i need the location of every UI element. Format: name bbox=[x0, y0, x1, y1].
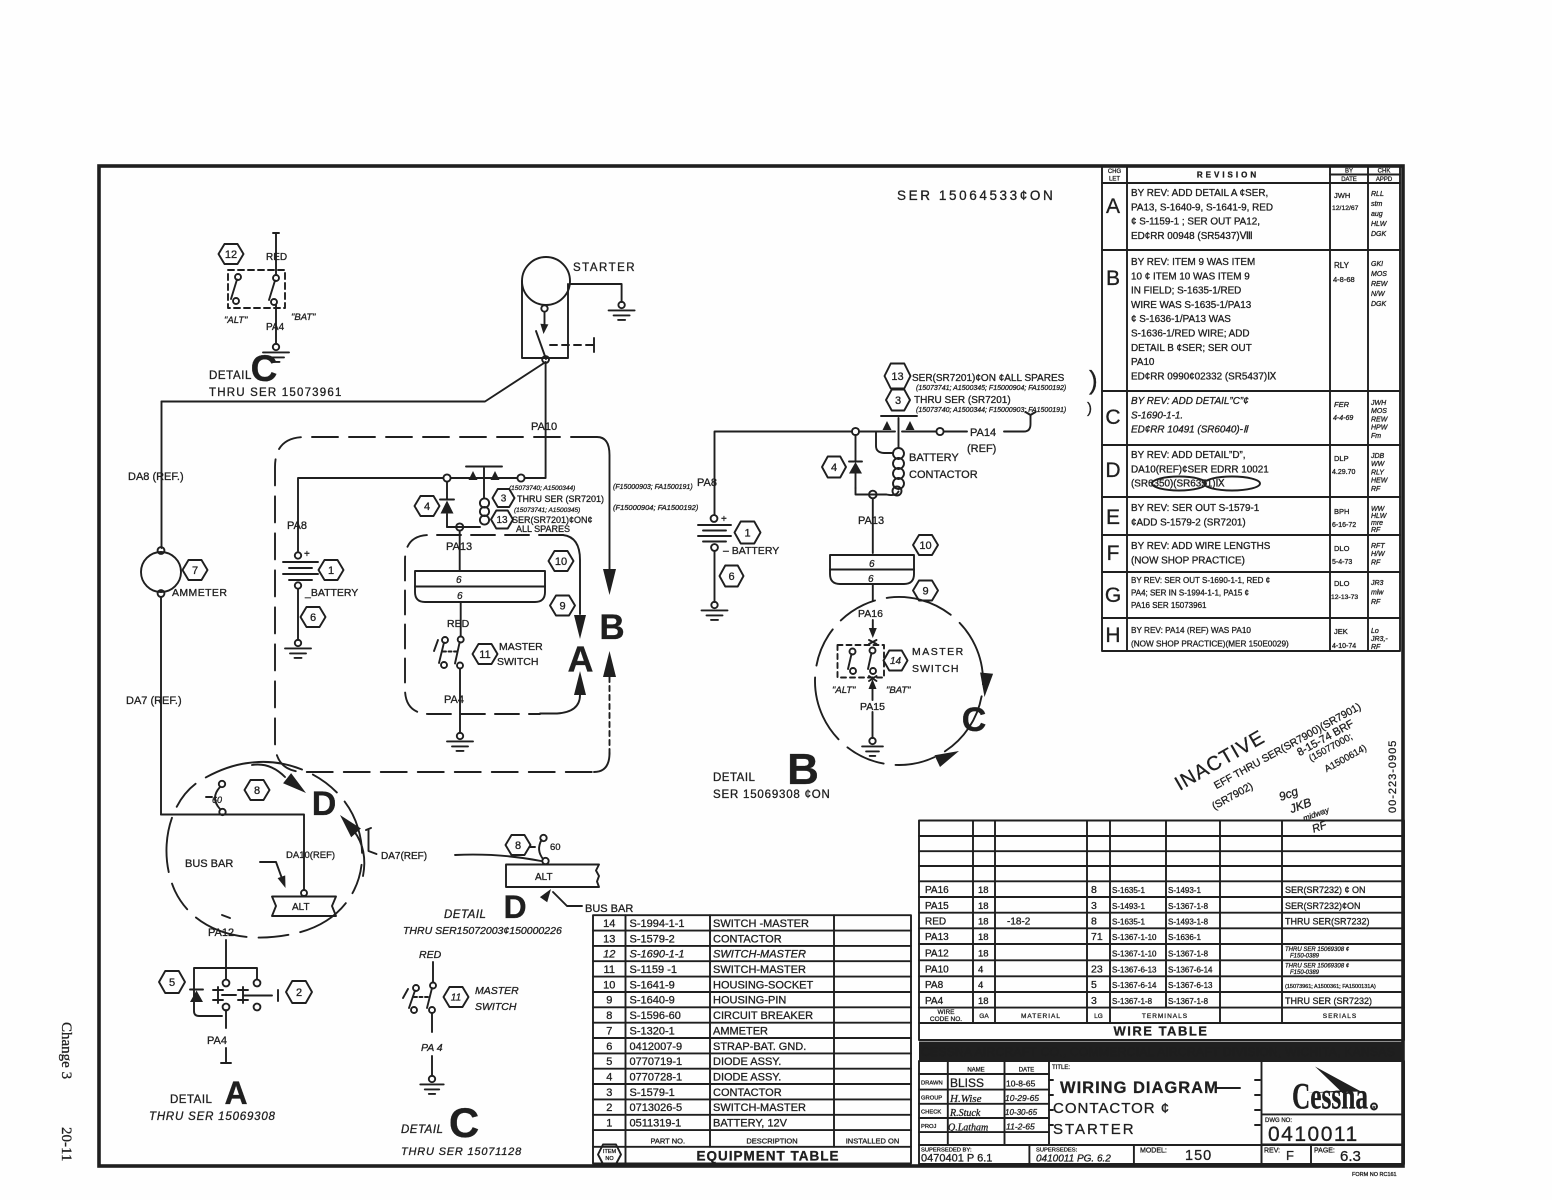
svg-text:2: 2 bbox=[606, 1102, 612, 1114]
svg-text:PA16: PA16 bbox=[858, 608, 883, 620]
wire PA10 from starter down bbox=[525, 363, 546, 478]
item 13 hexagon + note (right contactor) bbox=[885, 364, 1067, 393]
item 6 hexagon (right) bbox=[720, 566, 744, 587]
svg-text:(15073741; A1500345; F15000904: (15073741; A1500345; F15000904; FA150019… bbox=[916, 385, 1066, 392]
svg-text:9: 9 bbox=[559, 600, 565, 612]
ammeter label bbox=[172, 587, 227, 599]
svg-text:aug: aug bbox=[1371, 211, 1383, 218]
svg-text:10-30-65: 10-30-65 bbox=[1005, 1108, 1038, 1117]
svg-text:H/W: H/W bbox=[1371, 551, 1386, 558]
svg-text:RED: RED bbox=[447, 618, 470, 630]
wire contactor coil to PA13 junction bbox=[456, 523, 463, 570]
svg-text:0770728-1: 0770728-1 bbox=[630, 1071, 683, 1083]
svg-text:7: 7 bbox=[192, 565, 198, 577]
svg-text:MODEL:: MODEL: bbox=[1140, 1148, 1167, 1155]
svg-text:DA7 (REF.): DA7 (REF.) bbox=[126, 695, 182, 707]
item 5 hexagon (detail A) bbox=[159, 971, 185, 993]
svg-text:5: 5 bbox=[1091, 979, 1097, 991]
svg-text:¢ S-1636-1/PA13 WAS: ¢ S-1636-1/PA13 WAS bbox=[1131, 314, 1231, 325]
bus bar label (blob) + leader bbox=[185, 858, 286, 888]
detail B caption bbox=[713, 745, 831, 801]
svg-text:– BATTERY: – BATTERY bbox=[723, 545, 779, 557]
master switch label (detail C lower) bbox=[475, 985, 519, 1013]
svg-text:(15073961; A1500361; FA1500131: (15073961; A1500361; FA1500131A) bbox=[1285, 984, 1376, 990]
svg-text:PROJ: PROJ bbox=[921, 1124, 937, 1130]
svg-text:5-4-73: 5-4-73 bbox=[1332, 559, 1352, 566]
svg-text:S-1367-6-13: S-1367-6-13 bbox=[1112, 966, 1157, 975]
svg-text:S-1640-9: S-1640-9 bbox=[630, 995, 675, 1007]
svg-text:RFT: RFT bbox=[1371, 543, 1385, 550]
svg-text:CONTACTOR ¢: CONTACTOR ¢ bbox=[1053, 1100, 1170, 1117]
svg-text:IN FIELD; S-1635-1/RED: IN FIELD; S-1635-1/RED bbox=[1131, 286, 1241, 297]
svg-text:20-11: 20-11 bbox=[58, 1127, 74, 1161]
svg-text:S-1493-1-8: S-1493-1-8 bbox=[1168, 918, 1209, 927]
svg-text:BY: BY bbox=[1345, 169, 1353, 175]
svg-text:WW: WW bbox=[1371, 461, 1386, 468]
svg-text:PART NO.: PART NO. bbox=[650, 1136, 685, 1145]
svg-text:ED¢RR 10491 (SR6040)-Ⅱ: ED¢RR 10491 (SR6040)-Ⅱ bbox=[1131, 425, 1249, 436]
svg-text:CONTACTOR: CONTACTOR bbox=[909, 469, 978, 481]
wire DA8 vertical to ammeter bbox=[161, 402, 163, 549]
detail boundary blob (detail A/D region) bbox=[166, 762, 362, 938]
svg-text:6: 6 bbox=[457, 591, 463, 602]
svg-text:MOS: MOS bbox=[1371, 271, 1387, 278]
svg-text:S-1367-1-8: S-1367-1-8 bbox=[1168, 902, 1209, 911]
svg-text:CHG: CHG bbox=[1108, 169, 1122, 175]
svg-text:DGK: DGK bbox=[1371, 231, 1387, 238]
svg-text:REW: REW bbox=[1371, 281, 1389, 288]
item 9 hexagon (right strip) bbox=[913, 581, 938, 601]
battery ground (right) bbox=[702, 602, 728, 620]
svg-text:NO: NO bbox=[605, 1156, 614, 1162]
wire RED to switch (detail C lower) bbox=[432, 962, 434, 982]
stencil letter B bbox=[599, 608, 624, 647]
detail C (upper) wire from RED to switch bbox=[273, 233, 279, 274]
connector strip (right) 6/6 bbox=[830, 555, 914, 585]
company banner bbox=[919, 1042, 1404, 1062]
border frame bbox=[99, 166, 1403, 1166]
vertical drawing code 00-223-0905 bbox=[1387, 740, 1399, 813]
wire battery to ground (right) bbox=[714, 551, 716, 602]
svg-text:RF: RF bbox=[1371, 559, 1381, 566]
detail boundary inner dashed box (master switch detail) bbox=[405, 535, 563, 714]
svg-text:E: E bbox=[1106, 506, 1120, 529]
diode CR1 (center, item 4) bbox=[415, 482, 455, 527]
svg-text:JEK: JEK bbox=[1334, 627, 1348, 636]
svg-text:DLO: DLO bbox=[1334, 544, 1350, 553]
svg-text:18: 18 bbox=[978, 996, 989, 1007]
svg-text:THRU SER(SR7232): THRU SER(SR7232) bbox=[1285, 917, 1370, 927]
contactor K2 (detail A) bbox=[194, 968, 278, 1016]
svg-text:A: A bbox=[224, 1075, 247, 1111]
svg-text:PA13: PA13 bbox=[858, 515, 884, 527]
svg-text:3: 3 bbox=[501, 494, 507, 505]
svg-text:150: 150 bbox=[1185, 1148, 1212, 1164]
svg-text:RED: RED bbox=[419, 949, 442, 961]
equipment table bbox=[593, 915, 911, 1164]
svg-text:): ) bbox=[1087, 400, 1092, 417]
title block bbox=[919, 1061, 1404, 1165]
svg-text:(15073741; A1500345): (15073741; A1500345) bbox=[514, 507, 580, 514]
detail C (upper) ground bbox=[263, 344, 289, 362]
master switch label (center) bbox=[497, 641, 543, 668]
master switch ground (center) bbox=[447, 733, 473, 751]
svg-text:11: 11 bbox=[479, 649, 490, 661]
svg-text:STARTER: STARTER bbox=[1053, 1121, 1136, 1138]
detail B circle arrow (right, down) bbox=[980, 673, 993, 698]
svg-text:60: 60 bbox=[550, 842, 561, 853]
svg-text:0470401 P 6.1: 0470401 P 6.1 bbox=[921, 1153, 992, 1165]
svg-text:11: 11 bbox=[604, 964, 615, 976]
detail C (upper) wire to ground bbox=[275, 305, 277, 344]
svg-text:0410011: 0410011 bbox=[1268, 1123, 1359, 1146]
svg-text:AMMETER: AMMETER bbox=[172, 587, 227, 599]
svg-text:WIRE: WIRE bbox=[938, 1009, 956, 1016]
svg-text:DIODE ASSY.: DIODE ASSY. bbox=[713, 1056, 781, 1068]
svg-text:8: 8 bbox=[1091, 884, 1097, 896]
svg-text:(15073740; A1500344; F15000903: (15073740; A1500344; F15000903; FA150019… bbox=[916, 407, 1066, 414]
wire bus in blob bbox=[161, 815, 304, 891]
svg-text:S-1579-1: S-1579-1 bbox=[630, 1087, 675, 1099]
detail C (upper) RED wire label bbox=[266, 252, 287, 263]
diode CR3 (right, item 4) bbox=[822, 435, 862, 488]
svg-text:RLY: RLY bbox=[1334, 261, 1350, 270]
svg-text:H.Wise: H.Wise bbox=[949, 1093, 982, 1105]
battery contactor K3 (right) bbox=[852, 416, 917, 496]
item 3 hexagon + serial note (center) bbox=[493, 485, 605, 507]
detail blob curved arrow (from DA7 side) bbox=[340, 815, 364, 876]
svg-text:6: 6 bbox=[728, 571, 734, 583]
big parens on serial notes bbox=[1087, 365, 1098, 417]
svg-text:DETAIL: DETAIL bbox=[401, 1124, 443, 1136]
svg-text:BY REV: ADD DETAIL”C”¢: BY REV: ADD DETAIL”C”¢ bbox=[1131, 396, 1249, 407]
node PA4 label (center) bbox=[444, 694, 464, 706]
svg-text:8: 8 bbox=[515, 840, 521, 852]
svg-text:10 ¢ ITEM 10 WAS ITEM 9: 10 ¢ ITEM 10 WAS ITEM 9 bbox=[1131, 271, 1250, 282]
svg-text:BY REV: PA14 (REF) WAS PA10: BY REV: PA14 (REF) WAS PA10 bbox=[1131, 626, 1251, 635]
svg-text:C: C bbox=[962, 701, 987, 739]
svg-text:THRU SER 15069308 ¢: THRU SER 15069308 ¢ bbox=[1285, 947, 1350, 953]
svg-text:18: 18 bbox=[978, 932, 989, 943]
svg-text:mlw: mlw bbox=[1371, 590, 1384, 597]
detail C (upper) ALT / PA4 / BAT labels bbox=[224, 312, 316, 333]
svg-text:A: A bbox=[568, 639, 594, 680]
node PA13 label (right) bbox=[858, 515, 884, 527]
svg-text:DA10(REF): DA10(REF) bbox=[286, 850, 335, 861]
svg-text:S-1320-1: S-1320-1 bbox=[630, 1025, 675, 1037]
svg-text:DETAIL: DETAIL bbox=[713, 772, 756, 784]
svg-text:B: B bbox=[787, 745, 819, 794]
bus bar label (detail D) + leader arrow bbox=[540, 889, 633, 915]
svg-text:mre: mre bbox=[1371, 520, 1383, 527]
svg-text:1: 1 bbox=[744, 527, 750, 539]
svg-text:PA13: PA13 bbox=[446, 541, 472, 553]
svg-text:S-1367-1-8: S-1367-1-8 bbox=[1112, 997, 1153, 1006]
svg-text:71: 71 bbox=[1091, 931, 1103, 943]
svg-text:GA: GA bbox=[979, 1013, 989, 1020]
starter ground bbox=[609, 302, 635, 320]
svg-text:FORM NO RC161: FORM NO RC161 bbox=[1352, 1172, 1397, 1178]
svg-text:THRU SER 15069308 ¢: THRU SER 15069308 ¢ bbox=[1285, 963, 1350, 969]
detail C (upper) master switch poles bbox=[231, 274, 279, 305]
svg-text:HOUSING-PIN: HOUSING-PIN bbox=[713, 995, 786, 1007]
starter motor bbox=[522, 257, 594, 363]
svg-text:AMMETER: AMMETER bbox=[713, 1025, 768, 1037]
svg-text:JWH: JWH bbox=[1334, 191, 1350, 200]
svg-text:WIRING DIAGRAM: WIRING DIAGRAM bbox=[1060, 1079, 1219, 1097]
svg-text:BY REV: ITEM 9 WAS ITEM: BY REV: ITEM 9 WAS ITEM bbox=[1131, 257, 1255, 268]
svg-text:ALT: ALT bbox=[292, 902, 310, 913]
svg-text:BY REV: SER OUT S-1690-1-1, RE: BY REV: SER OUT S-1690-1-1, RED ¢ bbox=[1131, 576, 1270, 585]
battery B2 (right) bbox=[698, 514, 731, 551]
starter label bbox=[573, 262, 636, 274]
svg-text:JR3,-: JR3,- bbox=[1370, 636, 1388, 643]
svg-text:1: 1 bbox=[328, 565, 334, 577]
svg-text:): ) bbox=[1089, 365, 1098, 395]
svg-text:DA7(REF): DA7(REF) bbox=[381, 851, 427, 862]
junction PA13 (right) bbox=[869, 491, 877, 553]
svg-text:12: 12 bbox=[603, 949, 615, 961]
svg-text:RF: RF bbox=[1371, 599, 1381, 606]
svg-text:CHK: CHK bbox=[1378, 169, 1391, 175]
svg-text:S-1690-1-1.: S-1690-1-1. bbox=[1131, 410, 1183, 421]
node RED label (detail C lower) bbox=[419, 949, 442, 961]
svg-text:PA10: PA10 bbox=[925, 965, 949, 976]
svg-text:12: 12 bbox=[225, 249, 237, 261]
svg-text:BY REV: ADD DETAIL”D”,: BY REV: ADD DETAIL”D”, bbox=[1131, 450, 1246, 461]
revision row G bbox=[1105, 576, 1385, 610]
svg-text:HPW: HPW bbox=[1371, 425, 1389, 432]
wire table bbox=[919, 821, 1404, 1041]
node PA14 (REF) label bbox=[967, 427, 996, 455]
svg-text:4-10-74: 4-10-74 bbox=[1332, 643, 1356, 650]
svg-text:REV:: REV: bbox=[1264, 1148, 1280, 1155]
svg-text:6-16-72: 6-16-72 bbox=[1332, 522, 1356, 529]
svg-text:NAME: NAME bbox=[967, 1068, 984, 1074]
svg-text:S-1367-6-14: S-1367-6-14 bbox=[1168, 966, 1213, 975]
battery label (right) bbox=[723, 545, 779, 557]
svg-text:CESSNA AIRCRAFT CO., COMMERCIA: CESSNA AIRCRAFT CO., COMMERCIAL AIRCRAFT… bbox=[921, 1045, 1395, 1059]
master switch item 11 hexagon (center) bbox=[473, 644, 498, 664]
svg-text:Cessna: Cessna bbox=[1292, 1077, 1368, 1118]
detail D caption bbox=[403, 889, 562, 937]
svg-text:PA4; SER IN S-1994-1-1, PA15 ¢: PA4; SER IN S-1994-1-1, PA15 ¢ bbox=[1131, 589, 1249, 598]
note bracket to PA14 bbox=[1004, 412, 1036, 432]
svg-text:5: 5 bbox=[606, 1056, 612, 1068]
svg-text:RF: RF bbox=[1371, 527, 1381, 534]
svg-text:D: D bbox=[1105, 459, 1120, 482]
svg-text:STARTER: STARTER bbox=[573, 262, 636, 274]
svg-text:DATE: DATE bbox=[1341, 177, 1357, 183]
svg-text:F: F bbox=[1286, 1148, 1294, 1163]
svg-text:S-1994-1-1: S-1994-1-1 bbox=[630, 918, 685, 930]
svg-text:HLW: HLW bbox=[1371, 513, 1388, 520]
svg-text:23: 23 bbox=[1091, 964, 1103, 976]
svg-text:SERIALS: SERIALS bbox=[1323, 1013, 1357, 1020]
revision row H bbox=[1105, 624, 1388, 651]
svg-text:Change 3: Change 3 bbox=[58, 1022, 74, 1079]
detail boundary outer arrow B (bottom) bbox=[594, 651, 616, 772]
svg-text:INSTALLED ON: INSTALLED ON bbox=[846, 1136, 900, 1145]
node PA12 label bbox=[208, 915, 234, 939]
wire battery to ground (center) bbox=[297, 589, 299, 640]
svg-text:0511319-1: 0511319-1 bbox=[630, 1118, 682, 1130]
detail boundary outer dashed box (details A/B region) bbox=[275, 437, 597, 772]
detail boundary circle (detail B) bbox=[787, 569, 1010, 792]
svg-text:PA10: PA10 bbox=[531, 421, 557, 433]
svg-text:10: 10 bbox=[919, 540, 931, 552]
svg-text:S-1635-1: S-1635-1 bbox=[1112, 886, 1145, 895]
svg-text:4-8-68: 4-8-68 bbox=[1333, 275, 1355, 284]
item 9 hexagon (center) bbox=[550, 596, 575, 616]
svg-text:BPH: BPH bbox=[1334, 507, 1349, 516]
ALT bus bar (detail D) bbox=[506, 865, 599, 888]
svg-text:-18-2: -18-2 bbox=[1007, 917, 1031, 928]
svg-text:CONTACTOR: CONTACTOR bbox=[713, 1087, 782, 1099]
svg-text:¢ADD S-1579-2 (SR7201): ¢ADD S-1579-2 (SR7201) bbox=[1131, 517, 1246, 528]
ALT / BAT labels (detail B) bbox=[832, 685, 911, 696]
svg-text:JWH: JWH bbox=[1370, 400, 1387, 407]
svg-text:REVISION: REVISION bbox=[1197, 171, 1259, 180]
svg-text:ALL SPARES: ALL SPARES bbox=[516, 524, 570, 534]
ground (detail C lower) bbox=[420, 1076, 443, 1094]
svg-text:4: 4 bbox=[978, 965, 983, 976]
wire switch to ground (detail C lower) bbox=[431, 1013, 433, 1076]
svg-text:B: B bbox=[1106, 267, 1120, 290]
wire master switch to ground (center) bbox=[459, 669, 461, 734]
svg-text:THRU SER (SR7201): THRU SER (SR7201) bbox=[517, 494, 604, 504]
svg-text:10-29-65: 10-29-65 bbox=[1005, 1093, 1039, 1103]
INACTIVE stamp bbox=[1171, 701, 1369, 813]
wire PA8 (right battery feed) bbox=[715, 432, 853, 516]
svg-text:4: 4 bbox=[424, 501, 430, 513]
svg-text:SWITCH-MASTER: SWITCH-MASTER bbox=[713, 964, 806, 976]
svg-text:PA15: PA15 bbox=[925, 901, 949, 912]
wire PA12 to contactor bbox=[225, 940, 227, 979]
svg-text:_BATTERY: _BATTERY bbox=[304, 587, 358, 599]
svg-text:(F15000904; FA1500192): (F15000904; FA1500192) bbox=[613, 503, 699, 512]
svg-text:MASTER: MASTER bbox=[912, 646, 965, 658]
svg-text:HLW: HLW bbox=[1371, 221, 1388, 228]
detail boundary inner arrow A (bottom) bbox=[540, 671, 586, 714]
svg-text:CHECK: CHECK bbox=[921, 1110, 941, 1116]
svg-text:PA8: PA8 bbox=[925, 980, 944, 991]
svg-text:THRU SER (SR7201): THRU SER (SR7201) bbox=[914, 395, 1011, 406]
item 8 hexagon (blob) bbox=[245, 780, 270, 800]
battery label (center) bbox=[304, 587, 358, 599]
svg-text:4: 4 bbox=[606, 1071, 612, 1083]
svg-text:DESCRIPTION: DESCRIPTION bbox=[746, 1136, 797, 1145]
node PA 4 label (detail C lower) bbox=[421, 1042, 443, 1054]
svg-text:2: 2 bbox=[296, 987, 302, 999]
svg-text:S-1690-1-1: S-1690-1-1 bbox=[630, 949, 685, 961]
svg-text:DETAIL: DETAIL bbox=[209, 370, 252, 382]
svg-text:¢ S-1159-1 ; SER OUT PA12,: ¢ S-1159-1 ; SER OUT PA12, bbox=[1131, 217, 1260, 228]
svg-text:DRAWN: DRAWN bbox=[921, 1081, 943, 1087]
svg-text:"ALT": "ALT" bbox=[224, 315, 248, 326]
svg-text:(NOW SHOP PRACTICE): (NOW SHOP PRACTICE) bbox=[1131, 555, 1245, 566]
svg-text:PA8: PA8 bbox=[697, 477, 717, 489]
svg-text:S-1635-1: S-1635-1 bbox=[1112, 918, 1145, 927]
wire PA14 (REF) bbox=[902, 428, 967, 435]
item 13 hexagon + serial note (center) bbox=[491, 507, 593, 534]
svg-text:3: 3 bbox=[1091, 995, 1097, 1007]
svg-text:00-223-0905: 00-223-0905 bbox=[1387, 740, 1399, 813]
svg-text:BY REV: ADD WIRE LENGTHS: BY REV: ADD WIRE LENGTHS bbox=[1131, 541, 1271, 552]
item 2 hexagon (detail A) bbox=[286, 981, 312, 1003]
page number vertical text bbox=[58, 1022, 74, 1161]
wire ammeter to detail A bbox=[160, 597, 162, 815]
svg-text:PA16: PA16 bbox=[925, 885, 949, 896]
svg-text:SER(SR7232) ¢ ON: SER(SR7232) ¢ ON bbox=[1285, 885, 1366, 895]
svg-text:+: + bbox=[721, 514, 727, 525]
note SER 15064533 & ON bbox=[897, 188, 1055, 203]
svg-text:SER 15069308 ¢ON: SER 15069308 ¢ON bbox=[713, 789, 831, 801]
svg-text:APPD: APPD bbox=[1376, 177, 1393, 183]
svg-text:HOUSING-SOCKET: HOUSING-SOCKET bbox=[713, 979, 814, 991]
svg-text:N/W: N/W bbox=[1371, 291, 1386, 298]
battery contactor K1 (center) bbox=[443, 467, 524, 528]
revision row F bbox=[1107, 541, 1386, 566]
svg-text:TITLE:: TITLE: bbox=[1052, 1065, 1070, 1071]
svg-text:7: 7 bbox=[606, 1025, 612, 1037]
svg-text:(NOW SHOP PRACTICE)(MER 150E00: (NOW SHOP PRACTICE)(MER 150E0029) bbox=[1131, 640, 1289, 649]
svg-text:10: 10 bbox=[603, 979, 615, 991]
svg-text:0713026-5: 0713026-5 bbox=[630, 1102, 683, 1114]
svg-text:11-2-65: 11-2-65 bbox=[1006, 1122, 1035, 1132]
breaker 60 label (detail D) bbox=[550, 842, 561, 853]
svg-text:THRU SER (SR7232): THRU SER (SR7232) bbox=[1285, 996, 1372, 1006]
svg-text:MASTER: MASTER bbox=[499, 641, 543, 653]
svg-text:4: 4 bbox=[978, 980, 983, 991]
svg-text:stm: stm bbox=[1371, 201, 1382, 208]
svg-text:9: 9 bbox=[922, 585, 928, 597]
wire PA15 with up arrow bbox=[869, 679, 877, 738]
wire starter switch to DA8 bus (long horizontal) bbox=[162, 362, 546, 402]
wire PA4 stub (detail A) bbox=[221, 1010, 231, 1063]
battery B1 (center) bbox=[283, 549, 318, 589]
svg-text:S-1641-9: S-1641-9 bbox=[630, 979, 675, 991]
svg-text:ED¢RR 00948 (SR5437)Ⅷ: ED¢RR 00948 (SR5437)Ⅷ bbox=[1131, 231, 1253, 242]
svg-text:S-1367-6-14: S-1367-6-14 bbox=[1112, 981, 1157, 990]
svg-text:S-1367-1-8: S-1367-1-8 bbox=[1168, 997, 1209, 1006]
ALT bus bar (blob) bbox=[272, 890, 336, 916]
svg-text:C: C bbox=[449, 1099, 479, 1146]
svg-text:SWITCH: SWITCH bbox=[912, 663, 959, 675]
node DA7 (REF) label bbox=[126, 695, 182, 707]
svg-text:RLL: RLL bbox=[1371, 191, 1384, 198]
svg-text:4-4-69: 4-4-69 bbox=[1333, 415, 1353, 422]
contact x mark (detail B BAT side) bbox=[869, 676, 877, 681]
battery item 1 hexagon (right) bbox=[735, 522, 761, 544]
svg-text:WIRE WAS S-1635-1/PA13: WIRE WAS S-1635-1/PA13 bbox=[1131, 300, 1252, 311]
svg-text:S-1493-1: S-1493-1 bbox=[1168, 886, 1201, 895]
svg-text:THRU SER15072003¢150000226: THRU SER15072003¢150000226 bbox=[403, 925, 562, 937]
connector strip (center) 6/6 bbox=[415, 571, 545, 602]
node PA8 label (right) bbox=[697, 477, 717, 489]
svg-text:MATERIAL: MATERIAL bbox=[1021, 1013, 1061, 1020]
svg-text:PA10: PA10 bbox=[1131, 357, 1155, 368]
svg-text:LG: LG bbox=[1094, 1013, 1103, 1020]
detail blob arrow to D bbox=[252, 765, 306, 794]
svg-text:(REF): (REF) bbox=[967, 443, 996, 455]
svg-text:18: 18 bbox=[978, 949, 989, 960]
svg-text:S-1596-60: S-1596-60 bbox=[630, 1010, 681, 1022]
svg-text:S-1367-6-13: S-1367-6-13 bbox=[1168, 981, 1213, 990]
svg-text:D: D bbox=[503, 889, 526, 925]
svg-text:DLO: DLO bbox=[1334, 579, 1350, 588]
svg-text:C: C bbox=[1105, 406, 1120, 429]
